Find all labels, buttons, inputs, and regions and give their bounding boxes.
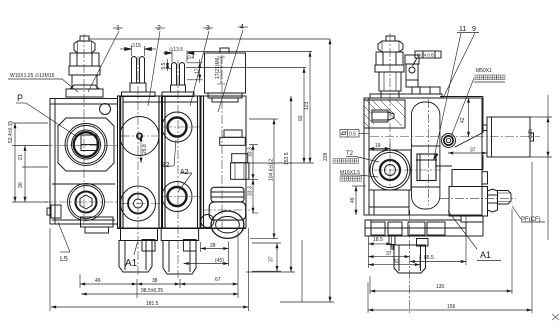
svg-text:A1: A1: [480, 250, 491, 260]
svg-text:123: 123: [304, 101, 310, 110]
svg-text:∅4: ∅4: [187, 55, 194, 61]
svg-text:37: 37: [470, 148, 476, 154]
svg-text:86.5: 86.5: [424, 255, 434, 261]
svg-text:181.5: 181.5: [146, 301, 159, 307]
svg-text:(45): (45): [215, 258, 224, 264]
svg-text:228: 228: [323, 152, 329, 161]
svg-text:92: 92: [298, 115, 304, 121]
svg-text:37: 37: [386, 251, 392, 257]
svg-text:33.3: 33.3: [248, 186, 254, 196]
svg-text:49: 49: [95, 278, 101, 284]
svg-text:38: 38: [152, 278, 158, 284]
svg-text:P: P: [17, 93, 23, 103]
svg-text:L5: L5: [60, 256, 68, 263]
svg-text:M50X1: M50X1: [476, 68, 492, 74]
svg-text:∅15: ∅15: [131, 43, 141, 49]
svg-text:T2: T2: [346, 151, 354, 157]
svg-text:W10X1.25 ∅12Μ15: W10X1.25 ∅12Μ15: [10, 73, 55, 79]
svg-text:9: 9: [472, 26, 476, 33]
svg-text:28: 28: [210, 243, 216, 249]
svg-text:18.5: 18.5: [373, 237, 383, 243]
svg-text:A1: A1: [125, 258, 138, 269]
svg-text:A2: A2: [180, 169, 189, 176]
svg-text:M16X1.5: M16X1.5: [340, 170, 360, 176]
svg-text:49: 49: [350, 197, 356, 203]
svg-text:130: 130: [436, 284, 445, 290]
svg-text:PF(CF): PF(CF): [521, 217, 541, 223]
svg-text:104.6±0.2: 104.6±0.2: [269, 159, 275, 181]
svg-text:∅35: ∅35: [528, 129, 534, 139]
svg-text:2: 2: [157, 25, 161, 32]
svg-text:37: 37: [269, 256, 275, 262]
svg-text:⊙∅4.8 B: ⊙∅4.8 B: [417, 52, 435, 57]
svg-text:30: 30: [18, 182, 24, 188]
svg-text:17(21)M6: 17(21)M6: [215, 57, 221, 79]
svg-text:29.8: 29.8: [142, 144, 148, 154]
svg-text:1: 1: [116, 25, 120, 32]
svg-text:11: 11: [459, 26, 466, 33]
svg-text:42: 42: [460, 117, 466, 123]
svg-text:17: 17: [195, 68, 201, 74]
svg-text:0.5: 0.5: [349, 132, 356, 138]
svg-text:19: 19: [375, 143, 381, 149]
svg-text:53: 53: [394, 259, 400, 265]
svg-text:153.5: 153.5: [284, 152, 290, 165]
svg-text:3: 3: [206, 25, 210, 32]
svg-text:∅13.5: ∅13.5: [169, 47, 183, 53]
svg-text:B2: B2: [161, 162, 170, 169]
svg-text:156: 156: [447, 304, 456, 310]
svg-text:98.5±0.25: 98.5±0.25: [141, 288, 163, 294]
svg-text:4: 4: [240, 24, 244, 31]
svg-text:52.4±0.15: 52.4±0.15: [8, 121, 14, 143]
svg-text:21: 21: [18, 154, 24, 160]
svg-text:67: 67: [215, 277, 221, 283]
